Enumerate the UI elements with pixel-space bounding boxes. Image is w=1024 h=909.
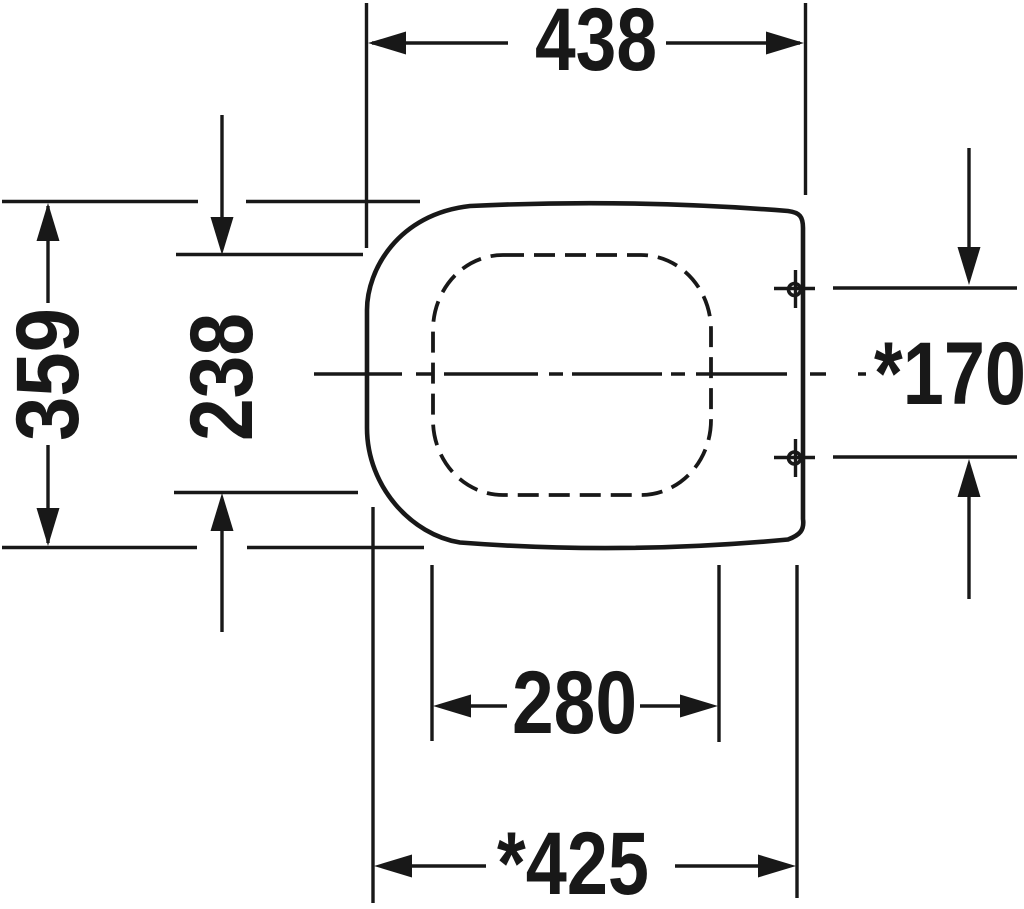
dim 359 arrow up: [37, 203, 60, 241]
svg-text:238: 238: [171, 313, 271, 441]
dim *170 arrow bottom (points up): [958, 459, 981, 497]
dim *425 arrow right: [758, 855, 796, 878]
dim 280 extension line right: [717, 565, 720, 742]
dim 438 extension line left: [365, 3, 368, 248]
dim *425 extension line right: [795, 565, 798, 898]
dim *425 arrow left: [374, 855, 412, 878]
dim 438 extension line right: [804, 3, 807, 195]
dim 359 extension line bottom: [2, 546, 424, 549]
hinge hole cross bottom: [774, 439, 815, 477]
seat outer outline: [367, 203, 803, 548]
dim *425 extension line left: [371, 507, 374, 903]
dim *170 arrow top (points down): [958, 247, 981, 285]
dim *425 dimension line: [408, 864, 760, 867]
svg-text:359: 359: [0, 308, 97, 441]
dim 359 extension line top: [2, 200, 420, 203]
svg-text:*170: *170: [874, 323, 1024, 423]
dim 238 extension line top: [176, 253, 363, 256]
dim 238 arrow line top: [220, 115, 223, 220]
dim 359 arrow down: [37, 508, 60, 546]
seat inner opening (dashed): [433, 255, 711, 495]
dim *170 arrow line top: [967, 148, 970, 250]
dim 438 arrow right: [766, 32, 804, 55]
dim 280 dimension line: [468, 704, 682, 707]
dim *170 arrow line bottom: [967, 496, 970, 599]
dim 280 arrow right: [680, 695, 718, 718]
dim *170 extension line top: [833, 286, 1017, 289]
dim 438 dimension line: [372, 41, 800, 44]
dim 438 arrow left: [368, 32, 406, 55]
svg-text:438: 438: [535, 0, 657, 89]
dim *170 extension line bottom: [833, 455, 1017, 458]
dim 238 arrow bottom (points up): [211, 493, 234, 531]
dim 280 arrow left: [433, 695, 471, 718]
dim 238 arrow line bottom: [220, 528, 223, 632]
dim 238 extension line bottom: [174, 491, 358, 494]
svg-text:*425: *425: [497, 813, 649, 909]
center line (dash-dot): [314, 372, 866, 375]
dim 280 extension line left: [430, 565, 433, 741]
svg-text:280: 280: [512, 652, 637, 752]
dim 238 arrow top (points down): [211, 217, 234, 255]
hinge hole cross top: [774, 270, 815, 308]
dim 359 dimension line: [46, 206, 49, 543]
